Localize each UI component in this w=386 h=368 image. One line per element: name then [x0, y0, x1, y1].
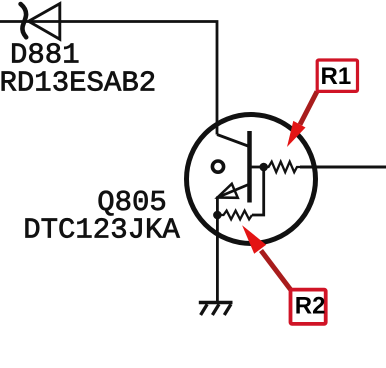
svg-text:R2: R2 — [295, 293, 326, 320]
pin marker circle — [212, 161, 223, 172]
svg-text:R1: R1 — [321, 63, 352, 90]
wire from diode to transistor collector — [0, 22, 217, 135]
junction dot base node — [259, 163, 268, 172]
wire emitter to ground — [216, 215, 219, 301]
emitter arrow head — [217, 184, 237, 198]
base lead — [252, 166, 265, 169]
transistor Q805 circle — [187, 115, 316, 244]
svg-text:DTC123JKA: DTC123JKA — [23, 214, 180, 247]
resistor R2 — [217, 211, 252, 220]
callout box R2 — [291, 290, 326, 324]
base bar — [247, 131, 252, 203]
svg-text:RD13ESAB2: RD13ESAB2 — [0, 67, 156, 100]
callout arrow R1 — [287, 92, 317, 148]
wire node to R2 — [252, 167, 264, 215]
callout arrow R2 — [242, 225, 290, 289]
collector lead — [217, 135, 248, 147]
callout box R1 — [317, 60, 357, 91]
emitter lead — [217, 185, 248, 216]
diode D881 — [21, 4, 60, 40]
resistor R1 — [264, 162, 300, 173]
ground — [199, 303, 233, 316]
junction dot emitter node — [213, 211, 222, 220]
wire base out — [300, 166, 386, 169]
